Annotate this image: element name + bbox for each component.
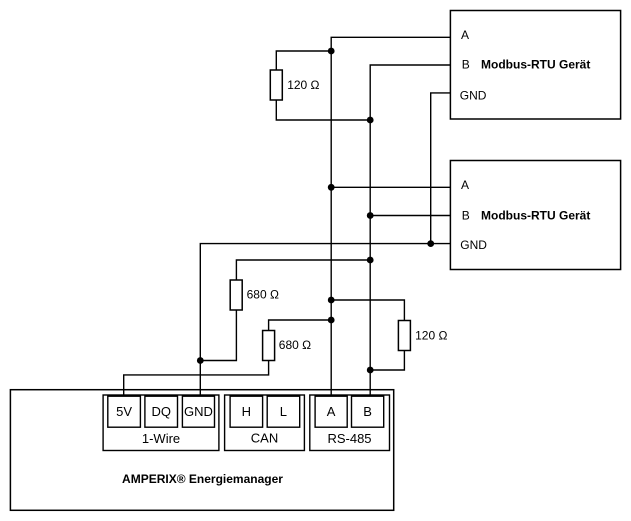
wire 680-ohm R2 bottom to net GND: [200, 310, 236, 361]
pin box H: [230, 396, 263, 427]
wire net B: Modbus box1 pin B to RS-485 pin B (vertical bus): [370, 65, 450, 396]
junction node A / R3 top: [328, 317, 335, 324]
connector group 1-Wire: [103, 395, 219, 451]
resistor R3 body (680 ohm, lower): [263, 331, 275, 361]
wire net GND: Modbus box2 pin GND to 1-Wire GND pin: [200, 244, 450, 396]
svg-text:A: A: [461, 178, 469, 192]
AMPERIX Energiemanager main box: [10, 390, 393, 511]
svg-text:120 Ω: 120 Ω: [415, 328, 447, 342]
wire 120-ohm R1 top to net A: [276, 51, 331, 70]
svg-text:B: B: [462, 58, 470, 72]
svg-text:1-Wire: 1-Wire: [142, 431, 180, 446]
junction node B / R4 bottom: [367, 367, 374, 374]
wire net A: Modbus box1 pin A to RS-485 pin A (vertical bus): [331, 37, 450, 396]
svg-text:AMPERIX® Energiemanager: AMPERIX® Energiemanager: [122, 472, 283, 486]
wire 120-ohm R4 bottom to net B: [370, 350, 404, 370]
svg-text:A: A: [461, 28, 469, 42]
pin box L: [267, 396, 300, 427]
svg-text:5V: 5V: [116, 404, 132, 419]
svg-text:GND: GND: [460, 238, 487, 252]
svg-text:RS-485: RS-485: [327, 431, 371, 446]
wire 680-ohm R3 top to net A: [269, 320, 332, 331]
svg-text:GND: GND: [460, 88, 487, 102]
wire net B branch to Modbus box2 pin B: [370, 215, 450, 217]
svg-text:H: H: [242, 404, 251, 419]
wire net A branch to Modbus box2 pin A: [331, 186, 450, 188]
svg-text:Modbus-RTU Gerät: Modbus-RTU Gerät: [481, 209, 590, 223]
svg-text:CAN: CAN: [251, 431, 278, 446]
pin box B (RS-485): [352, 396, 384, 427]
wire net GND: Modbus box1 pin GND down: [431, 93, 451, 244]
svg-text:120 Ω: 120 Ω: [287, 78, 319, 92]
junction node B / R1 bottom: [367, 117, 374, 124]
resistor R1 body (120 ohm, top left): [270, 70, 282, 100]
Modbus-RTU device box 1: [450, 11, 620, 120]
pin box 5V: [108, 396, 141, 427]
svg-text:680 Ω: 680 Ω: [247, 288, 279, 302]
junction node B / box2 B: [367, 212, 374, 219]
junction node GND / R2 bottom: [197, 357, 204, 364]
svg-text:Modbus-RTU Gerät: Modbus-RTU Gerät: [481, 58, 590, 72]
resistor R4 body (120 ohm, right): [398, 321, 410, 351]
junction node GND / box1-box2: [427, 240, 434, 247]
wire 680-ohm R2 top to net B: [236, 260, 370, 280]
connector group CAN: [225, 395, 305, 451]
svg-text:GND: GND: [184, 404, 213, 419]
connector group RS-485: [310, 395, 390, 451]
resistor R2 body (680 ohm, upper): [230, 280, 242, 310]
svg-text:A: A: [327, 404, 336, 419]
wire 680-ohm R3 bottom to 5V pin: [124, 361, 269, 396]
svg-text:B: B: [462, 209, 470, 223]
junction node A / R4 top: [328, 297, 335, 304]
junction node A / box2 A: [328, 184, 335, 191]
wire 120-ohm R4 top to net A: [331, 300, 404, 321]
junction node A / R1 top: [328, 48, 335, 55]
svg-text:DQ: DQ: [151, 404, 171, 419]
pin box A (RS-485): [315, 396, 347, 427]
Modbus-RTU device box 2: [450, 161, 620, 270]
junction node B / R2 top: [367, 257, 374, 264]
svg-text:680 Ω: 680 Ω: [279, 338, 311, 352]
wire 120-ohm R1 bottom to net B: [276, 100, 370, 120]
pin box GND (1-Wire): [182, 396, 214, 427]
svg-text:B: B: [363, 404, 372, 419]
pin box DQ: [145, 396, 178, 427]
svg-text:L: L: [280, 404, 287, 419]
